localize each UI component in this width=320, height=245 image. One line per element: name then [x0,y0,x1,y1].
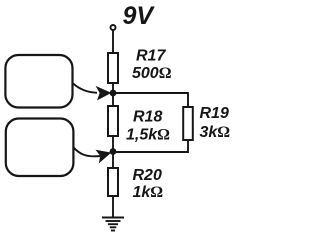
wire: R17 to R18 through node A [112,83,114,106]
arrow from callout 2 to node B [73,147,100,156]
svg-text:R19: R19 [200,105,229,122]
resistor R18 [108,106,118,136]
wire: R18 to R20 through node B [112,136,114,168]
node B junction dot [110,148,117,155]
callout box 2 [6,119,74,177]
ground [102,218,124,231]
wire: R20 to ground [112,196,114,217]
svg-text:R18: R18 [133,109,162,126]
resistor R20 [108,168,118,196]
svg-text:3kΩ: 3kΩ [200,124,231,141]
svg-text:1kΩ: 1kΩ [133,184,164,201]
svg-text:R20: R20 [133,167,162,184]
wire: down to R19 top [187,92,189,107]
svg-text:500Ω: 500Ω [132,65,172,82]
wire: R19 bottom to node B [113,140,188,152]
resistor R19 [183,107,193,140]
svg-text:1,5kΩ: 1,5kΩ [126,127,170,144]
callout box 1 [5,55,72,108]
svg-text:9V: 9V [123,2,156,30]
arrow from callout 1 to node A [72,83,97,93]
svg-text:R17: R17 [136,48,166,65]
9V supply terminal [111,25,116,30]
node A junction dot [110,90,117,97]
wire: 9V terminal to R17 [112,31,114,54]
wire: node A to R19 branch (horizontal) [113,92,188,94]
resistor R17 [108,53,118,83]
